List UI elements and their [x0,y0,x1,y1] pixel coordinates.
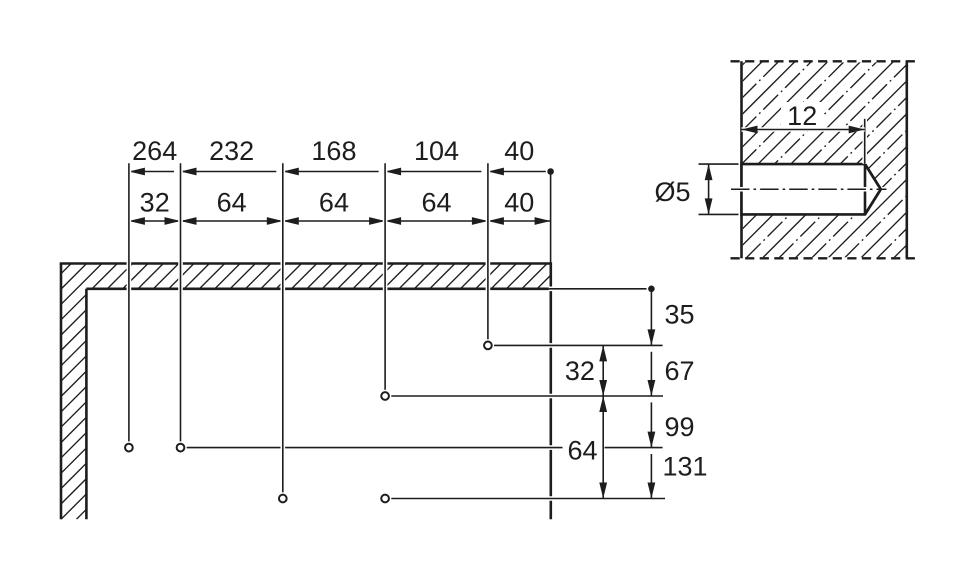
hole 264/99 [123,441,135,453]
dimension 232 (from origin) line [181,171,277,173]
svg-text:32: 32 [565,356,595,386]
svg-text:Ø5: Ø5 [654,177,690,207]
pitch dimension 32 line [129,220,181,222]
pitch dimension 64 vertical [602,396,604,499]
hole column centerline 104 [383,163,388,392]
dimension 12 line [742,127,865,132]
panel outer top edge [60,262,551,265]
dimension 99 line [650,402,652,447]
detail view right wall line [905,61,908,258]
dimension 40 (from origin) line [488,171,551,173]
hole column centerline 40 [486,163,491,341]
drilled hole cone edges redraw [865,164,881,189]
detail view top dashed break line [731,60,919,62]
svg-text:12: 12 [787,101,817,131]
extension line hole row 67 [389,394,663,399]
svg-text:40: 40 [504,136,534,166]
extension line hole row 99 (left part) [185,445,563,450]
panel outer left edge [60,264,63,520]
extension line hole row 35 [492,343,663,348]
pitch dimension 64 line [181,220,283,222]
svg-text:99: 99 [665,412,695,442]
svg-text:35: 35 [665,300,695,330]
dimension diameter-5 line [708,164,710,214]
pitch dimension 40 line [488,220,551,222]
panel inner left edge [85,289,88,519]
svg-text:64: 64 [567,435,597,465]
dimension diameter-5 top extension line [699,163,739,165]
hole column centerline 232 [178,163,183,444]
dimension 67 line [650,352,652,396]
drilled hole right edge [864,164,867,214]
dimension 264 (from origin) line [129,171,174,173]
hole 40/35 [482,339,494,351]
panel inner top edge [86,287,550,290]
svg-text:232: 232 [209,136,254,166]
dimension label 12 [781,102,823,128]
hole 232/99 [174,441,186,453]
dimension 168 (from origin) line [283,171,379,173]
origin dot top [546,167,556,177]
detail view bottom dashed break line [731,257,919,259]
panel right cut edge [549,262,552,519]
dimension diameter-5 bottom extension line [699,213,739,215]
detail view left wall line [740,61,743,258]
dimension 131 line [650,454,652,499]
svg-text:64: 64 [319,188,349,218]
extension line from panel inner edge to origin dot [549,286,652,291]
pitch dimension 32 vertical [602,345,604,396]
hole 104/131 [379,492,391,504]
origin extension line at panel right edge [550,172,552,263]
svg-text:40: 40 [504,188,534,218]
dimension 35 line [650,289,652,346]
hole 168/131 [277,492,289,504]
dimension 104 (from origin) line [385,171,481,173]
detail left wall redraw over hole mouth [740,162,743,216]
pitch dimension 64 line [385,220,488,222]
svg-text:64: 64 [421,188,451,218]
dimension 12 extension line [862,119,867,164]
svg-text:264: 264 [132,136,177,166]
hole 104/67 [379,390,391,402]
svg-text:131: 131 [663,451,708,481]
hole column centerline 264 [127,163,132,444]
svg-text:104: 104 [414,136,459,166]
pitch dimension 64 line [283,220,385,222]
drilled hole outline [742,164,881,214]
drilled hole white body [742,164,881,214]
svg-text:67: 67 [665,356,695,386]
hole centre line (dash-dot) [731,187,887,192]
origin dot right [647,284,657,294]
svg-text:64: 64 [217,188,247,218]
extension line hole row 99 (right part after 64 label) [605,445,663,450]
hole column centerline 168 [280,163,285,494]
svg-text:32: 32 [140,188,170,218]
svg-text:168: 168 [311,136,356,166]
extension line hole row 131 [389,496,665,501]
